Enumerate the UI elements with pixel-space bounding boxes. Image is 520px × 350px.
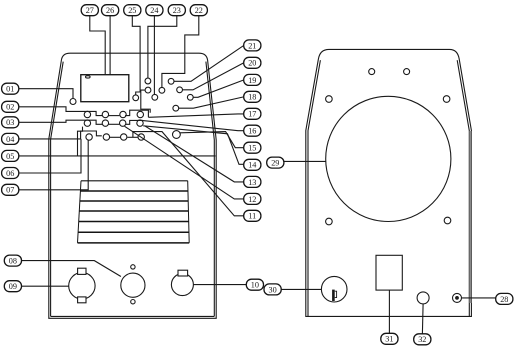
callout balloon 32 bbox=[414, 334, 431, 345]
callout balloon 24 bbox=[146, 5, 163, 16]
wire 21 bbox=[174, 46, 244, 82]
wire 32 bbox=[421, 304, 424, 334]
connector 08 socket bbox=[121, 265, 145, 304]
wire 18 bbox=[179, 97, 244, 108]
knob chain row3 c2-c3 bbox=[109, 136, 120, 138]
screw hole mid-left bbox=[326, 96, 333, 103]
callout balloon 23 bbox=[168, 5, 185, 16]
wire 20 bbox=[183, 63, 244, 90]
svg-text:14: 14 bbox=[248, 161, 256, 170]
power switch 30 bbox=[321, 276, 347, 302]
svg-text:32: 32 bbox=[418, 335, 426, 344]
callout balloon 17 bbox=[244, 108, 261, 119]
big knob (15) bbox=[173, 131, 181, 139]
rear panel outline bbox=[306, 49, 472, 316]
knob row3 col2 bbox=[103, 134, 109, 140]
svg-text:19: 19 bbox=[248, 76, 256, 85]
wire 30 bbox=[281, 288, 321, 290]
rear inner edge left bbox=[308, 60, 320, 316]
wire B tail bbox=[141, 90, 150, 113]
svg-text:10: 10 bbox=[251, 281, 259, 290]
front panel outline bbox=[49, 53, 216, 318]
svg-text:03: 03 bbox=[6, 118, 14, 127]
knob row2 col1 bbox=[84, 120, 90, 126]
wire 27 bbox=[90, 16, 105, 75]
screw hole bottom-left bbox=[326, 218, 333, 225]
callout balloon 14 bbox=[244, 159, 261, 170]
knob chain row1 c2-c3 bbox=[109, 115, 120, 117]
button G (19) bbox=[187, 94, 193, 100]
svg-text:25: 25 bbox=[128, 6, 136, 15]
knob row1 col1 bbox=[84, 111, 90, 117]
callout balloon 21 bbox=[244, 40, 261, 51]
svg-text:01: 01 bbox=[6, 85, 14, 94]
wire 23 bbox=[148, 16, 177, 79]
callout balloon 20 bbox=[244, 57, 261, 68]
callout balloon 03 bbox=[2, 117, 19, 128]
wire 31 bbox=[388, 290, 390, 333]
wire 24 bbox=[153, 16, 155, 95]
wire 07 bbox=[19, 140, 88, 190]
svg-text:06: 06 bbox=[6, 169, 14, 178]
callout balloon 30 bbox=[264, 284, 281, 295]
wire 29 bbox=[284, 160, 326, 162]
wire 26 bbox=[109, 16, 111, 75]
inlet socket 31 bbox=[376, 255, 402, 290]
svg-text:09: 09 bbox=[9, 282, 17, 291]
wire 09 bbox=[22, 285, 69, 287]
connector 10 socket bbox=[171, 270, 193, 295]
button D (22) bbox=[159, 87, 165, 93]
wire 22 bbox=[162, 16, 199, 88]
svg-text:18: 18 bbox=[248, 93, 256, 102]
knob row1 col2 bbox=[102, 111, 108, 117]
knob chain row2 c2-c3 bbox=[109, 123, 120, 125]
callout balloon 11 bbox=[244, 210, 261, 221]
svg-text:15: 15 bbox=[248, 144, 256, 153]
callout balloon 15 bbox=[244, 142, 261, 153]
callout balloon 19 bbox=[244, 74, 261, 85]
fan opening bbox=[326, 96, 451, 221]
wire 04 bbox=[19, 131, 102, 139]
connector 09 socket bbox=[69, 268, 95, 303]
svg-text:07: 07 bbox=[6, 186, 14, 195]
display corner mark bbox=[86, 76, 91, 78]
knob chain row1 c3 jog to 17 bbox=[125, 110, 148, 117]
wire 10 bbox=[193, 284, 246, 286]
front panel inner edge right bbox=[206, 62, 214, 317]
wire 06 bbox=[19, 139, 81, 173]
svg-text:13: 13 bbox=[248, 178, 256, 187]
button B bbox=[145, 87, 151, 93]
callout balloon 22 bbox=[190, 5, 207, 16]
screw hole top-right bbox=[404, 69, 410, 75]
callout balloon 16 bbox=[244, 125, 261, 136]
wire 19 bbox=[193, 80, 243, 97]
button C (24) bbox=[152, 94, 158, 100]
wire 05 / panel seam bbox=[19, 155, 216, 157]
wire 25 bbox=[132, 16, 140, 95]
wire 12 bbox=[125, 126, 244, 199]
svg-text:11: 11 bbox=[248, 212, 256, 221]
svg-text:20: 20 bbox=[248, 59, 256, 68]
svg-text:02: 02 bbox=[6, 103, 14, 112]
callout balloon 12 bbox=[244, 193, 261, 204]
svg-text:04: 04 bbox=[6, 135, 14, 144]
knob row2 col4 bbox=[137, 120, 143, 126]
svg-text:08: 08 bbox=[9, 257, 17, 266]
callout balloon 05 bbox=[2, 150, 19, 161]
rear side shading bbox=[469, 131, 471, 303]
wire 11 bbox=[133, 132, 244, 216]
callout balloon 18 bbox=[244, 91, 261, 102]
callout balloon 08 bbox=[4, 255, 21, 266]
callout balloon 06 bbox=[2, 168, 19, 179]
callout balloon 28 bbox=[496, 293, 513, 304]
svg-text:28: 28 bbox=[500, 295, 508, 304]
callout balloon 04 bbox=[2, 133, 19, 144]
knob row3 col4 bbox=[138, 134, 144, 140]
wire 28 bbox=[462, 297, 496, 299]
knob row2 col3 bbox=[120, 120, 126, 126]
callout balloon 01 bbox=[2, 83, 19, 94]
screw hole bottom-right bbox=[444, 217, 451, 224]
callout balloon 27 bbox=[81, 5, 98, 16]
screw hole mid-right bbox=[443, 96, 450, 103]
louver grille bbox=[78, 181, 190, 243]
callout balloon 29 bbox=[267, 157, 284, 168]
knob chain row2 c3 jog bbox=[126, 120, 143, 124]
front panel inner edge left bbox=[51, 62, 64, 317]
knob row2 col2 bbox=[102, 120, 108, 126]
wire 02 bbox=[19, 107, 102, 116]
wire 08 bbox=[22, 261, 121, 277]
callout balloon 13 bbox=[244, 176, 261, 187]
svg-text:31: 31 bbox=[385, 335, 393, 344]
wire 14 bbox=[143, 126, 243, 165]
callout balloon 26 bbox=[102, 5, 119, 16]
led circle (01) bbox=[70, 99, 76, 105]
svg-text:23: 23 bbox=[173, 6, 181, 15]
svg-text:16: 16 bbox=[248, 127, 256, 136]
wire 16 bbox=[143, 121, 244, 131]
callout balloon 07 bbox=[2, 184, 19, 195]
button A (23) bbox=[145, 78, 151, 84]
button H (18) bbox=[173, 105, 179, 111]
ground stud 28 bbox=[453, 293, 462, 302]
display window 26/27 bbox=[81, 75, 129, 102]
button circle fed by 25 bbox=[133, 95, 139, 101]
screw hole top-left bbox=[369, 69, 375, 75]
svg-text:05: 05 bbox=[6, 152, 14, 161]
svg-text:24: 24 bbox=[150, 6, 158, 15]
svg-text:26: 26 bbox=[106, 6, 114, 15]
svg-text:21: 21 bbox=[248, 41, 256, 50]
knob row3 col1 bbox=[86, 134, 92, 140]
wire 01 bbox=[19, 89, 73, 99]
svg-text:22: 22 bbox=[195, 6, 203, 15]
knob chain row3 c3-c4 bbox=[127, 136, 137, 138]
svg-text:29: 29 bbox=[271, 159, 279, 168]
wire 13 bbox=[145, 126, 244, 182]
svg-text:27: 27 bbox=[86, 6, 94, 15]
wire 17 bbox=[148, 114, 243, 117]
callout balloon 09 bbox=[4, 281, 21, 292]
button F (20) bbox=[177, 87, 183, 93]
wire 03 bbox=[19, 120, 102, 124]
knob row3 col3 bbox=[121, 134, 127, 140]
front panel inner bottom edge bbox=[51, 315, 215, 317]
svg-text:30: 30 bbox=[269, 285, 277, 294]
riser 05 bbox=[78, 127, 83, 156]
svg-text:17: 17 bbox=[248, 110, 256, 119]
hole 32 bbox=[417, 292, 429, 304]
callout balloon 10 bbox=[246, 279, 263, 290]
callout balloon 25 bbox=[124, 5, 141, 16]
button E (21) bbox=[168, 78, 174, 84]
knob row1 col4 bbox=[137, 111, 143, 117]
wire 15 bbox=[180, 132, 244, 148]
callout balloon 02 bbox=[2, 101, 19, 112]
svg-text:12: 12 bbox=[248, 195, 256, 204]
callout balloon 31 bbox=[381, 333, 398, 344]
rear inner edge right bbox=[457, 60, 469, 316]
knob row1 col3 bbox=[120, 111, 126, 117]
